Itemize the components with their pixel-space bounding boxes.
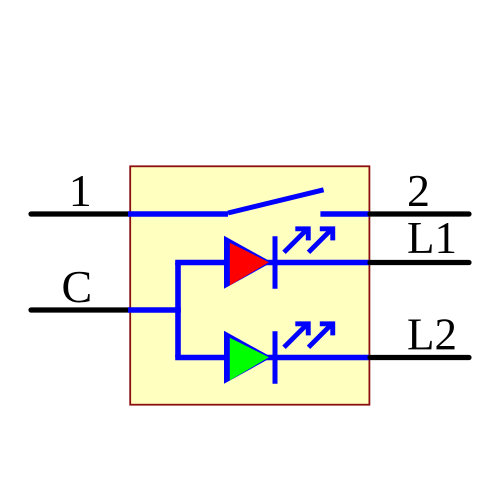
wire pin C internal [128, 307, 181, 313]
pin 1 wire [31, 211, 130, 216]
svg-text:C: C [62, 261, 93, 312]
LED D2 light arrow 2 [309, 321, 336, 347]
svg-text:2: 2 [407, 165, 430, 216]
LED D2 light arrow 1 [284, 321, 311, 347]
wire LED2 branch [175, 355, 369, 361]
pin L2 wire [370, 355, 469, 360]
wire LED1 branch [175, 260, 369, 266]
LED D1 light arrow 2 [309, 226, 336, 252]
pin 2 wire [370, 211, 469, 216]
pin C wire [31, 307, 130, 312]
switch SW1 blade [228, 190, 324, 213]
svg-text:L1: L1 [407, 213, 457, 263]
LED D1 red triangle [224, 236, 272, 289]
wire branch vertical [175, 263, 181, 358]
svg-text:L2: L2 [407, 309, 457, 359]
wire pin 2 internal [320, 211, 369, 217]
LED D2 cathode bar [273, 331, 278, 383]
component body box [130, 166, 369, 404]
pin L1 wire [370, 260, 469, 265]
wire pin 1 internal [128, 211, 228, 217]
LED D1 cathode bar [273, 236, 278, 288]
svg-text:1: 1 [69, 165, 92, 216]
LED D1 light arrow 1 [284, 226, 311, 252]
LED D2 green triangle [224, 331, 272, 384]
